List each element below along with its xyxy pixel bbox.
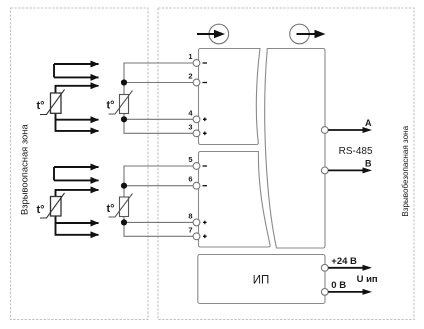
terminal 5 bbox=[193, 163, 200, 170]
terminal 2 bbox=[193, 79, 200, 86]
wire 0V arrow bbox=[328, 291, 363, 293]
svg-text:7: 7 bbox=[188, 225, 192, 234]
thermistor BK1 diagonal stroke bbox=[40, 90, 65, 115]
svg-text:1: 1 bbox=[188, 52, 192, 61]
wire BK1 lead 2 arrow bbox=[54, 76, 99, 78]
wire BK3 top to terminal 1 bbox=[124, 63, 197, 95]
output block RS-485 interface bbox=[265, 49, 325, 249]
svg-text:8: 8 bbox=[188, 211, 192, 220]
svg-text:ИП: ИП bbox=[253, 275, 270, 287]
RTD sensor BK3 wiring bbox=[124, 63, 197, 133]
terminal 3 bbox=[193, 130, 200, 137]
terminal 4 bbox=[193, 116, 200, 123]
safe zone dashed border bbox=[158, 8, 414, 320]
wire BK1 lead pair bridge bbox=[53, 64, 55, 77]
terminal B bbox=[321, 167, 328, 174]
wire BK1 lead 3 arrow (from sensor top) bbox=[56, 86, 99, 93]
svg-text:Взрывобезопасная зона: Взрывобезопасная зона bbox=[401, 125, 410, 216]
terminal 6 bbox=[193, 182, 200, 189]
RTD sensor BK4 wiring bbox=[124, 166, 197, 236]
thermistor BK1 body bbox=[51, 93, 62, 113]
thermistor BK4 body bbox=[120, 197, 129, 217]
svg-text:Взрывоопасная зона: Взрывоопасная зона bbox=[19, 124, 30, 215]
polarity sign plus pin 4 bbox=[203, 118, 207, 122]
hazardous zone dashed border bbox=[11, 8, 149, 320]
wire BK2 lead 5 arrow (from sensor bottom) bbox=[56, 223, 99, 235]
svg-text:6: 6 bbox=[188, 175, 192, 184]
polarity sign plus pin 3 bbox=[203, 132, 207, 136]
wire BK2 lead 4 arrow (from sensor bottom) bbox=[56, 216, 99, 223]
junction node 6 bbox=[121, 183, 127, 189]
polarity sign minus pin 2 bbox=[203, 82, 208, 84]
svg-text:t°: t° bbox=[37, 204, 45, 216]
RTD sensor BK2 cable (thick) bbox=[54, 167, 99, 235]
svg-text:U ип: U ип bbox=[357, 274, 378, 285]
power supply block ИП bbox=[198, 255, 325, 304]
svg-text:t°: t° bbox=[107, 100, 115, 112]
polarity sign plus pin 7 bbox=[203, 235, 207, 239]
wire BK2 lead 2 arrow bbox=[54, 179, 99, 181]
wire BK4 bottom to terminal 7 bbox=[124, 217, 197, 237]
wire BK4 top to terminal 5 bbox=[124, 166, 197, 197]
wire RS-485 line A arrow bbox=[328, 129, 363, 131]
wire BK1 lead 4 arrow (from sensor bottom) bbox=[56, 113, 99, 119]
isolation symbol input circle bbox=[209, 24, 229, 44]
svg-text:RS-485: RS-485 bbox=[339, 146, 373, 157]
RTD sensor BK1 cable (thick) bbox=[54, 64, 99, 131]
input block channel 1 bbox=[199, 49, 261, 145]
polarity sign minus pin 6 bbox=[203, 185, 208, 187]
terminal A bbox=[321, 127, 328, 134]
svg-text:B: B bbox=[365, 159, 372, 169]
terminal 8 bbox=[193, 219, 200, 226]
isolation symbol output arrow bbox=[297, 33, 316, 35]
polarity sign minus pin 5 bbox=[203, 165, 208, 167]
wire BK2 lead pair bridge bbox=[53, 167, 55, 180]
wire node4 to terminal 4 bbox=[124, 118, 197, 120]
junction node 8 bbox=[121, 219, 127, 225]
isolation symbol input arrow bbox=[197, 33, 215, 35]
polarity sign minus pin 1 bbox=[203, 62, 208, 64]
thermistor BK3 diagonal stroke bbox=[109, 91, 133, 115]
wire BK1 lead 5 arrow (from sensor bottom) bbox=[56, 120, 99, 131]
svg-text:t°: t° bbox=[37, 100, 45, 112]
wire BK2 lead 3 arrow (from sensor top) bbox=[56, 190, 99, 197]
isolation symbol output circle bbox=[290, 24, 310, 44]
polarity sign plus pin 8 bbox=[203, 221, 207, 225]
svg-text:2: 2 bbox=[188, 72, 192, 81]
svg-text:0 В: 0 В bbox=[331, 280, 346, 291]
terminal 0V bbox=[321, 289, 328, 296]
svg-text:+24 В: +24 В bbox=[331, 256, 357, 267]
input block channel 2 bbox=[199, 152, 271, 248]
thermistor BK4 diagonal stroke bbox=[109, 194, 133, 218]
terminal 7 bbox=[193, 233, 200, 240]
svg-text:5: 5 bbox=[188, 155, 192, 164]
wire BK3 bottom to terminal 3 bbox=[124, 113, 197, 133]
wire node6 to terminal 6 bbox=[124, 185, 197, 187]
svg-text:t°: t° bbox=[107, 203, 115, 215]
wire BK1 lead 1 arrow bbox=[54, 63, 99, 65]
wire RS-485 line B arrow bbox=[328, 169, 363, 171]
wire +24V arrow bbox=[328, 267, 363, 269]
wire node8 to terminal 8 bbox=[124, 221, 197, 223]
terminal +24V bbox=[321, 264, 328, 271]
wire node2 to terminal 2 bbox=[124, 82, 197, 84]
junction node 4 bbox=[121, 116, 127, 122]
junction node 2 bbox=[121, 79, 127, 85]
thermistor BK3 body bbox=[120, 95, 129, 114]
svg-text:3: 3 bbox=[188, 122, 192, 131]
svg-text:A: A bbox=[365, 118, 372, 128]
terminal 1 bbox=[193, 60, 200, 67]
thermistor BK2 body bbox=[51, 197, 62, 217]
thermistor BK2 diagonal stroke bbox=[40, 193, 65, 218]
wire BK2 lead 1 arrow bbox=[54, 166, 99, 168]
